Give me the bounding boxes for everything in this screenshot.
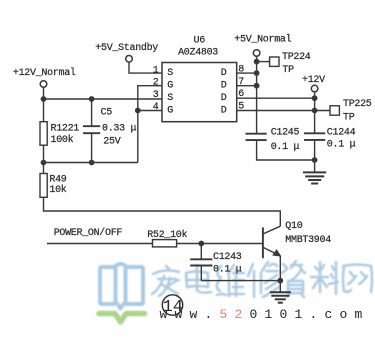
resistor R1221 bbox=[40, 122, 47, 146]
svg-text:+12V: +12V bbox=[302, 75, 325, 86]
resistor R49 bbox=[40, 174, 47, 198]
svg-text:D: D bbox=[221, 81, 227, 92]
watermark logo open book bbox=[99, 264, 145, 322]
char wei bbox=[217, 265, 244, 296]
node C5 top bbox=[89, 96, 95, 102]
wire base POWER_ON/OFF bbox=[47, 243, 263, 245]
node pin4 bbox=[135, 108, 141, 114]
char liao bbox=[311, 262, 338, 294]
capacitor C1243 plates bbox=[190, 259, 212, 265]
node C5 bottom bbox=[89, 160, 95, 166]
wire emitter node bbox=[201, 280, 280, 282]
svg-text:2: 2 bbox=[153, 78, 159, 89]
capacitor C1244 plates bbox=[304, 133, 325, 140]
svg-text:100k: 100k bbox=[51, 134, 74, 146]
wire +12V_Normal drop bbox=[43, 87, 45, 99]
watermark chinese characters bbox=[152, 261, 372, 297]
svg-text:G: G bbox=[167, 81, 173, 92]
svg-text:25V: 25V bbox=[103, 137, 120, 148]
char xiu bbox=[248, 262, 279, 297]
svg-text:7: 7 bbox=[238, 77, 244, 88]
svg-text:14: 14 bbox=[163, 298, 183, 317]
svg-text:+5V_Standby: +5V_Standby bbox=[95, 42, 158, 54]
svg-text:S: S bbox=[167, 93, 173, 104]
pin numbers bbox=[153, 65, 245, 117]
char zi bbox=[282, 261, 305, 297]
node emitter ground bbox=[277, 278, 283, 284]
testpoint TP224 square bbox=[270, 57, 279, 66]
svg-text:0.1 μ: 0.1 μ bbox=[213, 265, 242, 276]
page number circled 14 bbox=[162, 295, 182, 315]
svg-text:6: 6 bbox=[238, 89, 244, 100]
svg-text:0.1 μ: 0.1 μ bbox=[327, 140, 356, 151]
svg-text:1: 1 bbox=[153, 65, 159, 76]
node caps ground bbox=[312, 157, 318, 163]
transistor Q10 bbox=[263, 226, 280, 258]
node pin7 bbox=[254, 83, 260, 89]
svg-text:C1243: C1243 bbox=[213, 252, 242, 263]
svg-text:Q10: Q10 bbox=[285, 221, 302, 232]
wire pin4 bbox=[138, 110, 162, 112]
char wang bbox=[343, 265, 372, 293]
node pin8 bbox=[254, 70, 260, 76]
char jia bbox=[152, 266, 179, 296]
ground bottom (emitter) bbox=[270, 292, 291, 302]
wire C5 column bbox=[91, 99, 93, 163]
svg-text:POWER_ON/OFF: POWER_ON/OFF bbox=[54, 227, 123, 239]
wire pin2 bbox=[138, 86, 162, 163]
wire +5V_Standby to pin1 bbox=[129, 62, 162, 73]
wire pin6 bbox=[237, 97, 315, 99]
wire +12V rail to pin3 bbox=[44, 98, 163, 100]
svg-text:S: S bbox=[167, 68, 173, 79]
svg-text:G: G bbox=[167, 106, 173, 117]
wire R49 top bbox=[43, 163, 45, 174]
terminal +12V bbox=[311, 85, 318, 92]
svg-text:R1221: R1221 bbox=[51, 123, 80, 134]
svg-text:D: D bbox=[221, 106, 227, 117]
wire TP224 tap bbox=[257, 61, 270, 63]
svg-text:R49: R49 bbox=[49, 175, 66, 186]
Q10 emitter arrowhead bbox=[272, 249, 281, 257]
svg-text:5: 5 bbox=[238, 102, 244, 113]
wire pin5 to TP225 bbox=[237, 110, 330, 112]
svg-text:+12V_Normal: +12V_Normal bbox=[13, 67, 76, 79]
capacitor C5 plates bbox=[83, 126, 100, 133]
wire +5V_Normal column bbox=[257, 56, 315, 160]
wire +12V column bbox=[314, 92, 316, 172]
terminal +5V_Standby bbox=[126, 56, 133, 63]
char dian bbox=[186, 265, 211, 293]
svg-text:U6: U6 bbox=[194, 36, 206, 47]
resistor R52 bbox=[153, 240, 177, 247]
wire pin7 bbox=[237, 85, 257, 87]
capacitor C1245 plates bbox=[246, 134, 267, 140]
svg-text:8: 8 bbox=[238, 65, 244, 76]
svg-text:R52_10k: R52_10k bbox=[147, 229, 187, 241]
node gate rail left bbox=[41, 160, 47, 166]
svg-text:D: D bbox=[221, 93, 227, 104]
svg-text:3: 3 bbox=[153, 90, 159, 101]
wire Q10 emitter to ground bbox=[279, 256, 281, 292]
wire R49 bottom to collector rail bbox=[44, 197, 281, 226]
ground right (caps) bbox=[303, 172, 326, 183]
wire bottom gate rail bbox=[44, 162, 138, 164]
node pin5 bbox=[312, 108, 318, 114]
node +12V rail / R1221 bbox=[41, 96, 47, 102]
svg-text:C1244: C1244 bbox=[327, 128, 356, 139]
svg-text:TP: TP bbox=[343, 113, 355, 124]
svg-text:C5: C5 bbox=[101, 108, 113, 119]
svg-text:+5V_Normal: +5V_Normal bbox=[234, 33, 291, 45]
wire R1221 column bbox=[43, 99, 45, 163]
testpoint TP225 square bbox=[330, 106, 339, 115]
wire pin8 bbox=[237, 72, 257, 74]
svg-text:TP224: TP224 bbox=[282, 52, 311, 63]
svg-text:A0Z4803: A0Z4803 bbox=[178, 48, 218, 59]
node C1243 top bbox=[198, 241, 204, 247]
watermark url www.520101.com bbox=[160, 307, 370, 322]
terminal +12V_Normal bbox=[40, 81, 47, 88]
wire C1243 column bbox=[200, 244, 202, 281]
terminal +5V_Normal bbox=[253, 50, 260, 57]
svg-text:TP225: TP225 bbox=[343, 99, 372, 110]
svg-text:C1245: C1245 bbox=[271, 127, 300, 138]
svg-text:10k: 10k bbox=[49, 184, 66, 196]
svg-text:D: D bbox=[221, 68, 227, 79]
svg-text:MMBT3904: MMBT3904 bbox=[285, 235, 331, 246]
svg-text:0.33 μ: 0.33 μ bbox=[102, 124, 137, 135]
svg-text:0.1 μ: 0.1 μ bbox=[271, 142, 300, 153]
node TP224 tap bbox=[254, 59, 260, 65]
svg-text:4: 4 bbox=[153, 102, 159, 113]
svg-text:www.520101.com: www.520101.com bbox=[160, 307, 370, 322]
node pin6 bbox=[312, 95, 318, 101]
svg-text:TP: TP bbox=[282, 65, 294, 76]
IC U6 box bbox=[162, 63, 237, 122]
